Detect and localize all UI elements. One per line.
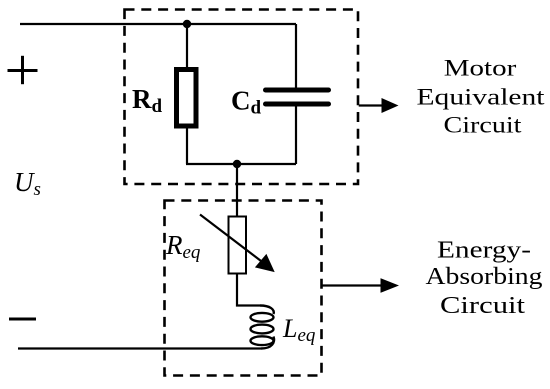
node A: junction of supply rail and Rd branch (183, 20, 191, 28)
svg-text:Motor: Motor (444, 56, 517, 81)
wire: negative supply rail (bottom) (18, 347, 261, 349)
wire: node B down to Req top (236, 164, 238, 217)
arrow to energy label (322, 278, 400, 293)
svg-text:Absorbing: Absorbing (426, 264, 543, 290)
dashed box: energy-absorbing circuit (165, 201, 322, 376)
wire: Cd bottom plate to bottom rail (295, 105, 297, 164)
wire: Req bottom down and right to inductor top (237, 274, 260, 306)
minus terminal (9, 318, 36, 321)
wire: positive supply rail (top) (20, 23, 296, 25)
variable-resistor arrow through Req (200, 215, 275, 273)
arrow to motor label (359, 98, 399, 113)
svg-text:Circuit: Circuit (444, 113, 523, 138)
wire: node A down to Rd top (186, 24, 188, 68)
node B: junction of bottom rail and energy branch (233, 160, 241, 168)
dashed box: motor equivalent circuit (125, 10, 359, 185)
svg-text:Energy-: Energy- (437, 237, 531, 263)
plus terminal (8, 56, 38, 84)
wire: supply rail down to Cd top plate (295, 24, 297, 89)
resistor Req (variable) (229, 217, 247, 274)
wire: Rd bottom to parallel bottom rail (186, 126, 188, 164)
capacitor Cd (266, 90, 329, 104)
label: Motor Equivalent Circuit (417, 56, 546, 138)
inductor Leq (251, 306, 275, 349)
label: Energy-Absorbing Circuit (426, 237, 543, 319)
wire: parallel-circuit bottom rail (186, 163, 296, 165)
svg-text:Circuit: Circuit (440, 293, 525, 319)
resistor Rd (177, 70, 197, 127)
svg-text:Equivalent: Equivalent (417, 85, 546, 110)
